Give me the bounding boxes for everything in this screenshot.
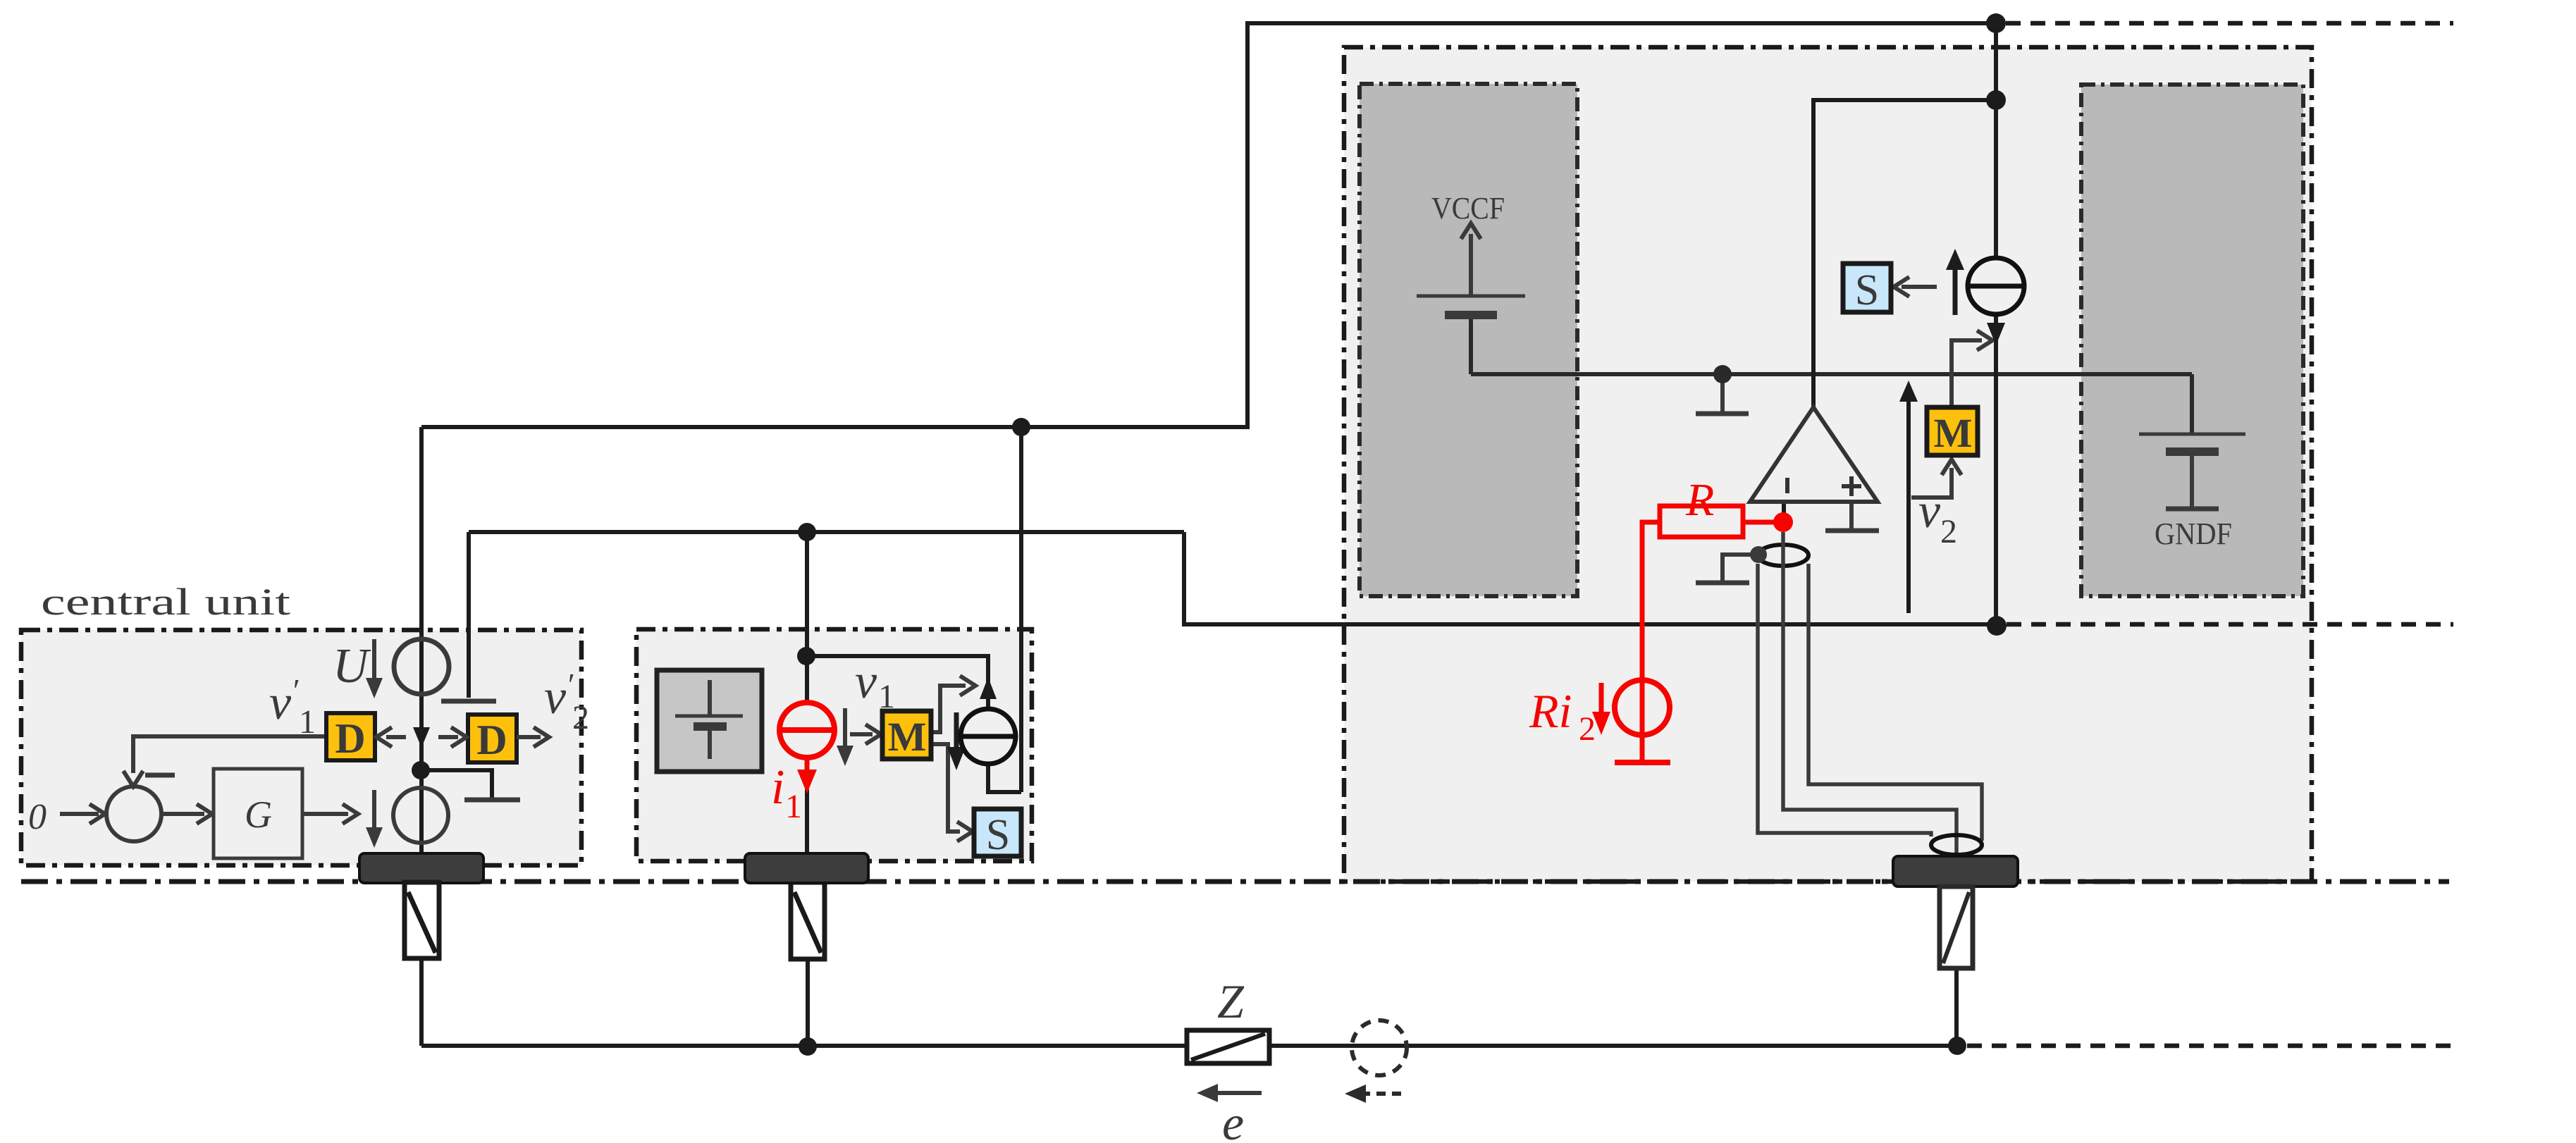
node dot bottom bus right bbox=[1948, 1037, 1966, 1055]
wire: middle CS bottom loop bbox=[988, 764, 1021, 792]
Z impedance on bottom bus bbox=[1187, 975, 1269, 1063]
wire: op-amp inverting input stub bbox=[1782, 502, 1786, 518]
connector bar middle block bbox=[745, 853, 868, 883]
wire: rail down to GNDF battery bbox=[2190, 374, 2194, 434]
svg-text:VCCF: VCCF bbox=[1431, 191, 1505, 225]
coax cable line left/bottom bbox=[1758, 564, 1931, 836]
svg-text:G: G bbox=[245, 793, 272, 836]
ground: at rail junction bbox=[1720, 374, 1725, 412]
coax shield node dot bbox=[1750, 546, 1767, 563]
svg-text:i: i bbox=[771, 760, 784, 815]
v2 label arrow bbox=[1899, 381, 1957, 613]
GNDF box bbox=[2081, 85, 2303, 596]
svg-text:S: S bbox=[986, 811, 1010, 859]
right S box bbox=[1843, 264, 1891, 314]
wire: supply rail y=531 bbox=[1471, 372, 2192, 376]
node dot on lower bus bbox=[798, 523, 816, 541]
dashed left arrow below circle bbox=[1345, 1085, 1401, 1103]
label i1 (red) bbox=[771, 760, 802, 825]
wire: upper horizontal bus y=606 bbox=[421, 425, 1250, 429]
label v'2 bbox=[544, 667, 589, 736]
floating-part block (big right dash-dot box) bbox=[1344, 47, 2312, 882]
svg-text:Ri: Ri bbox=[1529, 684, 1572, 738]
wire: bottom bus mid segment bbox=[1269, 1044, 1957, 1048]
D box 2 bbox=[468, 715, 517, 763]
minus sign at summer bbox=[145, 773, 175, 778]
middle block node dot bbox=[797, 647, 815, 665]
down arrowhead below right CS bbox=[1987, 323, 2005, 345]
node dot on rail bbox=[1713, 365, 1732, 383]
wire: below impedance 1 to bottom bus bbox=[419, 958, 424, 1046]
down arrow between M and CS bbox=[947, 712, 966, 770]
op-amp bbox=[1750, 407, 1878, 502]
middle controlled current source bbox=[961, 709, 1016, 764]
svg-text:U: U bbox=[333, 639, 371, 693]
impedance 1 bbox=[405, 882, 439, 958]
right controlled current source bbox=[1968, 258, 2024, 314]
svg-text:1: 1 bbox=[785, 788, 802, 825]
wire+arrow: 0 input into summer bbox=[60, 812, 99, 816]
svg-text:v: v bbox=[269, 676, 292, 730]
node dot on upper bus bbox=[1012, 418, 1030, 436]
coax cable near-end ellipse bbox=[1758, 545, 1808, 566]
arrow: VCCF up arrow bbox=[1469, 234, 1473, 296]
up arrowhead on middle CS wire bbox=[980, 677, 997, 699]
svg-text:2: 2 bbox=[572, 699, 589, 736]
wire+arrow: M to S (middle block) bbox=[931, 744, 960, 832]
svg-text:1: 1 bbox=[299, 703, 316, 741]
svg-text:central unit: central unit bbox=[41, 581, 290, 623]
ground: op-amp + input bbox=[1849, 502, 1854, 529]
svg-text:2: 2 bbox=[1579, 710, 1596, 748]
dashed circle on bottom bus bbox=[1352, 1020, 1407, 1075]
node dot lower right bbox=[1987, 616, 2007, 636]
U voltage source circle bbox=[394, 639, 449, 694]
label U with down arrow bbox=[333, 639, 383, 698]
svg-text:S: S bbox=[1855, 266, 1879, 314]
wire+arrow: v1 into M (middle block) bbox=[850, 732, 873, 736]
wire: below impedance 2 bbox=[806, 959, 810, 1046]
wire: black below i1 arrow to bar bbox=[805, 789, 809, 853]
wire: step from lower bus to right block bbox=[1184, 532, 1997, 624]
wire+arrow: v2 into M bottom (right block) bbox=[1911, 468, 1952, 498]
Ri2 controlled source (red) bbox=[1615, 680, 1670, 762]
svg-text:v: v bbox=[544, 670, 567, 724]
battery box (middle block ground reference) bbox=[657, 670, 762, 772]
controlled voltage source circle (lower) bbox=[393, 788, 448, 843]
coax cable far-end ellipse bbox=[1931, 835, 1982, 855]
svg-text:′: ′ bbox=[566, 667, 574, 703]
svg-text:2: 2 bbox=[1940, 513, 1957, 550]
wire: dashed continuation y=886 bbox=[2007, 622, 2453, 627]
arrow out of D2 bbox=[517, 727, 549, 747]
wire+arrow: summer to G bbox=[161, 812, 204, 816]
svg-text:Z: Z bbox=[1217, 975, 1245, 1028]
wire: right CS bottom down to lower node bbox=[1994, 314, 1998, 626]
wire: long vertical from node to middle CS loop bbox=[1019, 427, 1023, 792]
svg-text:v: v bbox=[855, 655, 877, 709]
svg-text:R: R bbox=[1685, 474, 1714, 526]
middle interface block (dash-dot box) bbox=[636, 629, 1032, 861]
wire: node branch to ground (central unit) bbox=[421, 770, 492, 798]
node dot central unit bbox=[412, 761, 430, 779]
svg-text:D: D bbox=[476, 717, 507, 763]
connector bar right block bbox=[1893, 856, 2018, 886]
svg-text:M: M bbox=[1934, 410, 1973, 456]
D box 1 bbox=[326, 713, 375, 762]
node dot bottom bus left bbox=[799, 1037, 817, 1056]
svg-text:D: D bbox=[335, 715, 365, 762]
wire: below impedance 3 bbox=[1954, 968, 1959, 1046]
wire: vertical to ground in central unit bbox=[467, 532, 471, 698]
wire: vertical into middle block i1 source bbox=[805, 532, 809, 703]
arrow into D1 (left) bbox=[376, 727, 406, 747]
wire: left vertical from top wire bbox=[1245, 21, 1250, 427]
red node dot at inverting input bbox=[1773, 512, 1793, 532]
central unit block (dash-dot box) bbox=[21, 630, 581, 865]
top wire (solid) bbox=[1247, 21, 1996, 25]
GNDF battery plates and ground bbox=[2139, 433, 2245, 436]
label v1 with down arrow (middle block) bbox=[837, 655, 895, 766]
svg-text:M: M bbox=[888, 714, 927, 760]
VCCF battery plates bbox=[1417, 295, 1525, 298]
impedance 3 bbox=[1940, 886, 1973, 968]
wire: bottom bus left segment bbox=[421, 1044, 1187, 1048]
label Ri2 with red down arrow bbox=[1529, 683, 1610, 748]
wire+arrow: M to CS control (middle block) bbox=[931, 686, 966, 732]
node dot top-right bbox=[1986, 13, 2006, 33]
up label arrow right CS bbox=[1946, 249, 1964, 315]
wire: op-amp output up and right to node bbox=[1813, 100, 1996, 407]
top wire dashed continuation bbox=[2006, 21, 2453, 26]
label v'1 bbox=[269, 672, 316, 741]
VCCF supply box bbox=[1360, 84, 1577, 596]
svg-text:′: ′ bbox=[291, 672, 299, 708]
ground bar right of node bbox=[464, 798, 520, 803]
i1 red current source bbox=[779, 703, 834, 793]
S box middle block bbox=[974, 809, 1021, 859]
wire+arrow: M control into CS wire (right block) bbox=[1952, 340, 1982, 407]
R resistor (red) bbox=[1660, 474, 1775, 537]
central unit title bbox=[41, 581, 290, 623]
arrow: feedback into summer top bbox=[123, 771, 143, 786]
wire: vertical from top wire through node to right CS bbox=[1994, 23, 1998, 259]
wire: bottom bus dashed continuation bbox=[1967, 1044, 2453, 1049]
e label with left arrow bbox=[1197, 1084, 1262, 1143]
node dot op-amp output bbox=[1986, 90, 2006, 110]
svg-text:GNDF: GNDF bbox=[2155, 517, 2232, 551]
wire+arrow: G output bbox=[302, 812, 348, 816]
label arrow at lower source bbox=[366, 790, 383, 848]
red wire R to Ri2 source bbox=[1642, 522, 1660, 681]
wire: lower horizontal bus y=755 bbox=[469, 530, 1184, 534]
wire+arrow: CS into S (right block) bbox=[1902, 285, 1937, 289]
wire: vertical into U source bbox=[419, 427, 424, 853]
impedance 2 bbox=[791, 882, 825, 959]
ground: coax shield near end bbox=[1723, 555, 1758, 581]
coax cable line center conductor bbox=[1783, 532, 1956, 856]
connector bar central unit bbox=[359, 853, 483, 883]
M box right block bbox=[1927, 407, 1978, 456]
M box middle block bbox=[882, 711, 931, 760]
svg-text:e: e bbox=[1222, 1096, 1244, 1143]
arrowhead down on central wire bbox=[413, 727, 430, 748]
wire: VCCF battery stub to rail bbox=[1469, 317, 1473, 374]
arrow into D2 (right) bbox=[438, 727, 467, 747]
wire: middle node to CS top bbox=[806, 656, 988, 710]
long boundary dash-dot line bbox=[21, 879, 2449, 884]
svg-text:v: v bbox=[1918, 484, 1941, 538]
ground bar central unit bbox=[441, 699, 496, 704]
G block bbox=[214, 769, 302, 858]
wire: feedback from D1 to summing node bbox=[133, 736, 326, 773]
svg-text:0: 0 bbox=[28, 797, 47, 837]
coax cable line right/top bbox=[1808, 564, 1982, 841]
summing junction circle bbox=[106, 786, 161, 841]
